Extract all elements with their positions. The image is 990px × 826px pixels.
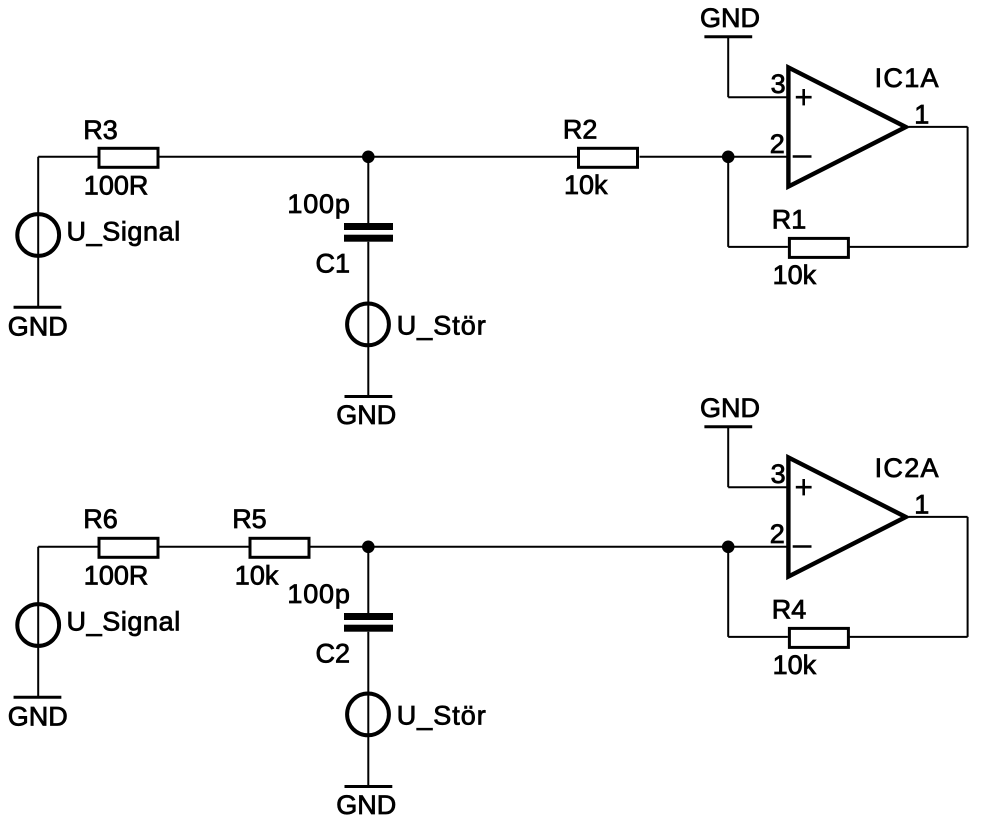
ground bbox=[345, 395, 393, 398]
svg-text:GND: GND bbox=[700, 393, 760, 423]
wire bbox=[909, 126, 968, 128]
wire bbox=[160, 156, 369, 158]
svg-text:IC2A: IC2A bbox=[875, 453, 940, 483]
svg-text:100p: 100p bbox=[287, 579, 350, 609]
svg-text:100p: 100p bbox=[287, 189, 350, 219]
ground bbox=[14, 306, 62, 309]
svg-text:R5: R5 bbox=[232, 504, 267, 534]
wire bbox=[727, 37, 729, 97]
voltage source U_Stör bbox=[347, 304, 389, 346]
svg-text:10k: 10k bbox=[564, 170, 608, 200]
ground bbox=[704, 425, 752, 428]
wire bbox=[728, 636, 788, 638]
wire bbox=[728, 156, 788, 158]
svg-text:1: 1 bbox=[914, 100, 929, 130]
svg-text:100R: 100R bbox=[84, 561, 149, 591]
op-amp IC1A bbox=[788, 67, 905, 186]
svg-text:2: 2 bbox=[770, 519, 785, 549]
wire bbox=[37, 157, 39, 307]
svg-text:GND: GND bbox=[336, 400, 396, 430]
svg-text:10k: 10k bbox=[235, 561, 279, 591]
svg-text:R1: R1 bbox=[772, 205, 807, 235]
wire bbox=[728, 96, 788, 98]
svg-text:3: 3 bbox=[771, 69, 786, 99]
svg-text:R3: R3 bbox=[83, 115, 118, 145]
wire bbox=[38, 156, 97, 158]
wire bbox=[727, 427, 729, 488]
wire bbox=[728, 546, 788, 548]
wire bbox=[367, 242, 369, 397]
wire bbox=[368, 156, 577, 158]
wire bbox=[640, 156, 729, 158]
svg-text:GND: GND bbox=[8, 701, 68, 731]
wire bbox=[367, 632, 369, 787]
svg-text:U_Signal: U_Signal bbox=[67, 217, 181, 247]
capacitor C1 bbox=[344, 223, 393, 242]
resistor R3 bbox=[99, 148, 158, 167]
wire bbox=[367, 547, 369, 614]
wire bbox=[311, 546, 369, 548]
wire bbox=[728, 486, 788, 488]
op-amp IC2A bbox=[788, 457, 905, 576]
svg-text:U_Stör: U_Stör bbox=[397, 311, 487, 341]
wire bbox=[909, 516, 968, 518]
voltage source U_Signal bbox=[17, 604, 59, 646]
ground bbox=[14, 696, 62, 699]
wire bbox=[849, 246, 967, 248]
ground bbox=[345, 785, 393, 788]
node top of C1 bbox=[362, 151, 375, 164]
node inverting input of IC1A bbox=[722, 151, 735, 164]
wire bbox=[967, 127, 969, 247]
node top of C2 bbox=[362, 541, 375, 554]
node inverting input of IC2A bbox=[722, 541, 735, 554]
svg-text:2: 2 bbox=[770, 129, 785, 159]
wire bbox=[368, 546, 728, 548]
wire bbox=[727, 547, 729, 637]
svg-text:C1: C1 bbox=[316, 248, 351, 278]
wire bbox=[728, 246, 788, 248]
svg-text:10k: 10k bbox=[773, 650, 817, 680]
svg-text:GND: GND bbox=[8, 311, 68, 341]
svg-text:3: 3 bbox=[771, 459, 786, 489]
wire bbox=[967, 517, 969, 637]
wire bbox=[160, 546, 249, 548]
svg-text:IC1A: IC1A bbox=[875, 63, 940, 93]
wire bbox=[37, 547, 39, 698]
ground bbox=[704, 35, 752, 38]
svg-text:1: 1 bbox=[914, 490, 929, 520]
resistor R5 bbox=[250, 538, 309, 557]
wire bbox=[727, 157, 729, 247]
svg-text:C2: C2 bbox=[316, 638, 351, 668]
capacitor C2 bbox=[344, 613, 393, 632]
svg-text:R2: R2 bbox=[563, 115, 598, 145]
svg-text:GND: GND bbox=[336, 790, 396, 820]
svg-text:U_Stör: U_Stör bbox=[397, 701, 487, 731]
svg-text:100R: 100R bbox=[84, 171, 149, 201]
svg-text:10k: 10k bbox=[773, 260, 817, 290]
svg-text:GND: GND bbox=[700, 3, 760, 33]
resistor R1 bbox=[789, 238, 848, 257]
voltage source U_Stör bbox=[347, 694, 389, 736]
voltage source U_Signal bbox=[17, 214, 59, 256]
svg-text:U_Signal: U_Signal bbox=[67, 607, 181, 637]
wire bbox=[367, 157, 369, 224]
svg-text:R4: R4 bbox=[772, 595, 807, 625]
resistor R4 bbox=[789, 628, 848, 647]
resistor R6 bbox=[99, 538, 158, 557]
wire bbox=[849, 636, 967, 638]
svg-text:R6: R6 bbox=[83, 504, 118, 534]
wire bbox=[38, 546, 97, 548]
resistor R2 bbox=[579, 148, 638, 167]
